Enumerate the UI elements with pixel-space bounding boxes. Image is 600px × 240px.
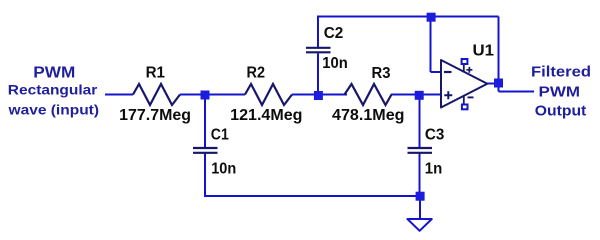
wire top rail — [317, 16, 499, 18]
node B junction — [314, 91, 323, 100]
wire feedback to op-amp minus input — [431, 71, 442, 73]
op-amp U1 V+ power pin — [462, 59, 473, 73]
capacitor C1 — [193, 148, 218, 153]
svg-text:PWM: PWM — [539, 85, 581, 101]
svg-text:Filtered: Filtered — [531, 65, 591, 81]
value 10n C1 — [211, 160, 236, 177]
node C junction — [415, 91, 424, 100]
svg-text:R1: R1 — [146, 65, 166, 82]
wire right vertical to output — [498, 17, 500, 92]
value 177.7Meg — [119, 107, 191, 124]
resistor R1 — [133, 84, 180, 105]
wire C1 bottom lead — [204, 153, 206, 197]
svg-text:10n: 10n — [211, 160, 236, 177]
wire node A to R2 — [205, 94, 245, 96]
node A junction — [201, 91, 210, 100]
wire R2 to node B — [292, 94, 318, 96]
net label Filtered PWM Output — [531, 65, 591, 120]
svg-text:C3: C3 — [425, 126, 445, 143]
svg-text:Rectangular: Rectangular — [8, 82, 98, 98]
value 478.1Meg — [332, 107, 405, 124]
label U1 — [473, 43, 495, 60]
value 121.4Meg — [230, 107, 302, 124]
svg-text:177.7Meg: 177.7Meg — [119, 107, 191, 124]
wire ground stub — [419, 196, 421, 219]
node top feedback junction — [427, 13, 436, 22]
wire op-amp output lead — [487, 83, 499, 85]
wire bottom rail — [204, 195, 420, 197]
svg-text:1n: 1n — [425, 160, 443, 177]
label R1 — [146, 65, 166, 82]
svg-text:R2: R2 — [247, 65, 266, 82]
svg-text:PWM: PWM — [33, 65, 75, 82]
ground — [407, 219, 431, 231]
svg-text:121.4Meg: 121.4Meg — [230, 107, 302, 124]
wire output horizontal — [499, 91, 535, 93]
wire R1 to node A — [180, 94, 205, 96]
wire node B to R3 — [318, 94, 347, 96]
wire C1 top lead — [204, 95, 206, 148]
wire R3 to node C — [391, 94, 420, 96]
wire C3 top lead — [419, 95, 421, 148]
wire node C to op-amp plus input — [420, 94, 442, 96]
resistor R2 — [245, 84, 292, 105]
label C1 — [211, 126, 229, 143]
label R2 — [247, 65, 266, 82]
net label PWM Rectangular wave (input) — [7, 65, 99, 118]
svg-text:478.1Meg: 478.1Meg — [332, 107, 405, 124]
wire C2 bottom lead — [317, 53, 319, 94]
svg-text:10n: 10n — [322, 55, 348, 72]
label R3 — [372, 65, 391, 82]
svg-text:U1: U1 — [473, 43, 495, 60]
op-amp U1 V- power pin — [462, 96, 474, 110]
node bottom rail junction — [416, 192, 425, 201]
value 10n C2 — [322, 55, 348, 72]
node output junction — [494, 79, 503, 88]
op-amp U1 — [441, 60, 487, 108]
wire feedback vertical — [430, 17, 432, 73]
label C2 — [324, 25, 344, 42]
capacitor C3 — [408, 148, 433, 153]
capacitor C2 — [306, 48, 331, 53]
wire C2 top lead — [317, 17, 319, 48]
resistor R3 — [345, 84, 392, 105]
wire input to R1 — [105, 94, 133, 96]
svg-text:R3: R3 — [372, 65, 391, 82]
wire C3 bottom lead — [419, 153, 421, 197]
svg-text:C2: C2 — [324, 25, 344, 42]
svg-text:C1: C1 — [211, 126, 229, 143]
value 1n C3 — [425, 160, 443, 177]
label C3 — [425, 126, 445, 143]
svg-text:wave (input): wave (input) — [7, 101, 99, 117]
svg-text:Output: Output — [535, 103, 587, 119]
